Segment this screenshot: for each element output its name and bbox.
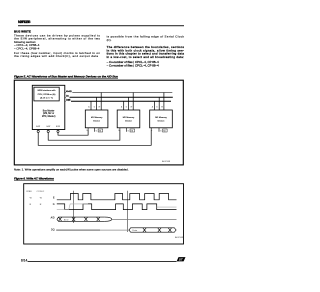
- memory device 2 box: [117, 110, 140, 128]
- figure 1 frame: [14, 80, 183, 165]
- waveform G (row 2): [57, 204, 177, 210]
- bus A/D trailing line: [112, 218, 177, 220]
- svg-text:W: W: [130, 106, 132, 108]
- svg-text:Data: Data: [133, 229, 138, 232]
- address bus line: [64, 92, 67, 94]
- left column paragraph 2: [14, 51, 100, 58]
- svg-text:Note: 1. Write operations ampl: Note: 1. Write operations amplify on eac…: [14, 168, 129, 172]
- waveform E (row 1): [57, 194, 177, 200]
- svg-text:Device: Device: [93, 120, 100, 122]
- DQ row leading line: [56, 229, 100, 231]
- svg-text:the rising edges will add Cloc: the rising edges will add Clock(C), and …: [14, 54, 98, 58]
- left column paragraph 1: [14, 33, 100, 44]
- svg-text:M70, Master): M70, Master): [42, 115, 56, 118]
- svg-text:in a low-cost, to select and a: in a low-cost, to select and all broadca…: [107, 55, 185, 59]
- fig2 signal labels: [51, 197, 55, 231]
- svg-text:AI02349: AI02349: [175, 236, 184, 239]
- svg-text:– CPCL–4, CP88–4: – CPCL–4, CP88–4: [14, 46, 40, 50]
- figure 2 frame: [24, 184, 184, 244]
- DQ trailing line: [175, 229, 178, 231]
- svg-text:E/W: E/W: [56, 126, 60, 128]
- svg-text:AI02348: AI02348: [162, 160, 171, 163]
- svg-text:ADD: ADD: [64, 218, 69, 221]
- cycle divider 2: [127, 191, 129, 232]
- svg-text:A/D: A/D: [51, 217, 55, 220]
- svg-text:M3 Memory: M3 Memory: [155, 116, 167, 119]
- wire U1 master pin3 to memory 1: [58, 130, 88, 135]
- footer rule: [28, 260, 177, 263]
- bus A/D row rails: [57, 217, 112, 221]
- fig2 row value marks: [30, 197, 43, 206]
- wire U2 master pin2 to memory 2: [48, 130, 120, 140]
- left column bullets: [14, 43, 40, 50]
- svg-text:Figure 6. Write AC Waveforms: Figure 6. Write AC Waveforms: [14, 176, 54, 180]
- right column paragraph 1: [107, 35, 185, 42]
- svg-text:G/W: G/W: [46, 126, 50, 128]
- write bus line: [64, 100, 67, 102]
- right column paragraph 2: [107, 45, 185, 59]
- svg-text:ST: ST: [179, 258, 183, 262]
- svg-text:DQ: DQ: [66, 96, 69, 98]
- bus master pins: [37, 130, 59, 133]
- svg-text:CPU, FPGA or (A): CPU, FPGA or (A): [38, 93, 56, 96]
- memory 1 top ticks: [91, 93, 101, 111]
- svg-text:(C).: (C).: [107, 38, 112, 42]
- svg-text:Device: Device: [125, 120, 132, 122]
- cycle divider 1: [73, 191, 75, 223]
- svg-text:A0-A21: A0-A21: [66, 90, 73, 93]
- svg-text:8/14: 8/14: [21, 259, 28, 263]
- wire U3 master pin1 to memory 3: [38, 130, 151, 146]
- bus master outer box: [32, 85, 65, 129]
- DQ bus rails: [129, 228, 176, 232]
- svg-text:Bus Master: Bus Master: [43, 109, 55, 112]
- memory 1 E stub: [87, 128, 89, 130]
- svg-text:W: W: [98, 106, 100, 108]
- svg-text:CYCLE 1: CYCLE 1: [26, 191, 33, 193]
- bus master inner box: [34, 87, 59, 101]
- memory 3 E stub: [150, 128, 152, 130]
- svg-text:G: G: [53, 204, 55, 206]
- svg-text:(A 15 to 7, Y): (A 15 to 7, Y): [40, 97, 53, 100]
- bus master pin labels: [36, 126, 60, 128]
- svg-text:is possible from the falling e: is possible from the falling edge of Ser…: [107, 35, 185, 39]
- svg-text:M29F102BB: M29F102BB: [18, 20, 31, 24]
- memory device 3 box: [150, 110, 173, 128]
- DQ crossings: [143, 228, 172, 232]
- header rule: [18, 24, 184, 27]
- svg-text:M1 Memory: M1 Memory: [91, 116, 103, 119]
- waveform G gray overlay: [57, 204, 88, 210]
- svg-text:Figure 5. AC Waveforms of Bus: Figure 5. AC Waveforms of Bus Master and…: [14, 74, 118, 78]
- svg-text:CYCLE 2: CYCLE 2: [37, 191, 45, 193]
- svg-text:E/W: E/W: [36, 126, 40, 128]
- right column bullets: [107, 60, 160, 68]
- data bus line: [64, 96, 67, 98]
- svg-text:Device: Device: [158, 120, 165, 122]
- ST logo: [177, 257, 186, 262]
- svg-text:– Co-number of files | CPCL–4,: – Co-number of files | CPCL–4, CP 88–4: [107, 64, 160, 68]
- memory 2 top ticks: [124, 93, 134, 111]
- memory device 1 box: [85, 110, 108, 128]
- bus A/D crossings: [58, 217, 100, 221]
- svg-text:W: W: [161, 106, 163, 108]
- svg-text:M29 Interface with: M29 Interface with: [38, 89, 57, 92]
- svg-text:DQ: DQ: [51, 230, 55, 232]
- memory 3 top ticks: [155, 93, 164, 111]
- memory 2 E stub: [119, 128, 121, 130]
- svg-text:(M9, M2 or: (M9, M2 or: [43, 112, 54, 115]
- bus master text: [42, 109, 56, 118]
- svg-text:M2 Memory: M2 Memory: [123, 116, 135, 119]
